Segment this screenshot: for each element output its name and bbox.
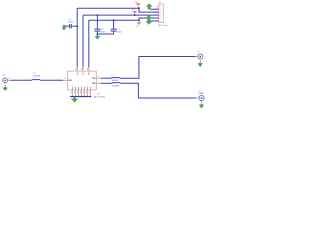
connector J2 (left SMA) (3, 78, 11, 87)
svg-text:+3V3: +3V3 (135, 26, 139, 28)
ground flag U1 (71, 97, 78, 103)
wire row A (vcc row, steps to pin3) (77, 8, 159, 12)
svg-text:100n: 100n (68, 22, 74, 24)
wire row B (to pin4) (83, 14, 159, 16)
ground rail bottom of U1 (70, 96, 90, 98)
vertical wire 1 (76, 8, 78, 67)
wire out2 to J4 (120, 83, 196, 98)
svg-text:3: 3 (160, 12, 161, 14)
svg-text:6: 6 (160, 21, 161, 23)
svg-text:2: 2 (160, 9, 161, 11)
wire out1 to J3 (119, 57, 195, 79)
ground flag J4 (199, 104, 205, 109)
ground flag (caps) (95, 34, 101, 40)
svg-text:100n: 100n (101, 31, 107, 33)
wire L2 to U1 (40, 79, 63, 81)
svg-text:BLM18: BLM18 (112, 86, 120, 88)
wire row C (steps up to pin5) (89, 18, 159, 20)
svg-text:1: 1 (160, 6, 161, 8)
junction cap1 tap (97, 14, 99, 16)
wire J2 to L2 (10, 79, 32, 81)
svg-text:100n: 100n (117, 31, 123, 33)
connector J3 (top right SMA) (196, 54, 203, 63)
inductor L2 (32, 73, 41, 81)
connector J1 (top right 6-pin header) (157, 4, 164, 23)
junction cap2 tap (113, 19, 115, 21)
svg-text:BLM18: BLM18 (112, 80, 120, 82)
inductor L4 (112, 82, 120, 87)
svg-text:ADCLK905: ADCLK905 (94, 96, 106, 99)
svg-text:BLM18: BLM18 (33, 75, 41, 77)
wire pin6 stub to down port (148, 20, 159, 22)
junctions bottom pins (72, 96, 74, 98)
wire U1 out2 (101, 82, 112, 84)
net port up arrow (green) (146, 3, 153, 9)
power flag inverted on row C (135, 20, 141, 28)
capacitor C3 horizontal (63, 19, 77, 28)
junction row B flag (134, 14, 136, 16)
junction row A flag (138, 7, 140, 9)
power flag +3V3 on row B (131, 9, 137, 15)
net port down arrow (green) (145, 15, 152, 25)
connector J4 (bottom right SMA) (196, 95, 204, 104)
capacitor C2 column (111, 20, 123, 33)
svg-text:4: 4 (160, 15, 161, 17)
ground flag J3 (197, 63, 203, 68)
net port down arrow (C3, green) (61, 25, 67, 30)
svg-text:SMA: SMA (198, 92, 203, 95)
wire pin2 stub to up port (150, 8, 159, 10)
svg-text:XDC_con: XDC_con (158, 25, 168, 27)
wire U1 out1 (101, 77, 112, 79)
wire cap2 to rail (97, 31, 113, 34)
ground flag J2 (2, 87, 8, 91)
capacitor C1 column (94, 15, 106, 34)
IC U1 (63, 67, 101, 96)
power flag +3V3 on row A (134, 1, 141, 8)
junction ground rail caps (97, 33, 99, 35)
vertical wire 3 (88, 20, 90, 67)
inductor L3 (111, 75, 119, 82)
junction C3 tap on vertical1 (76, 25, 78, 27)
vertical wire 2 (82, 15, 84, 67)
svg-text:5: 5 (160, 18, 161, 20)
junction row C flag (138, 19, 140, 21)
